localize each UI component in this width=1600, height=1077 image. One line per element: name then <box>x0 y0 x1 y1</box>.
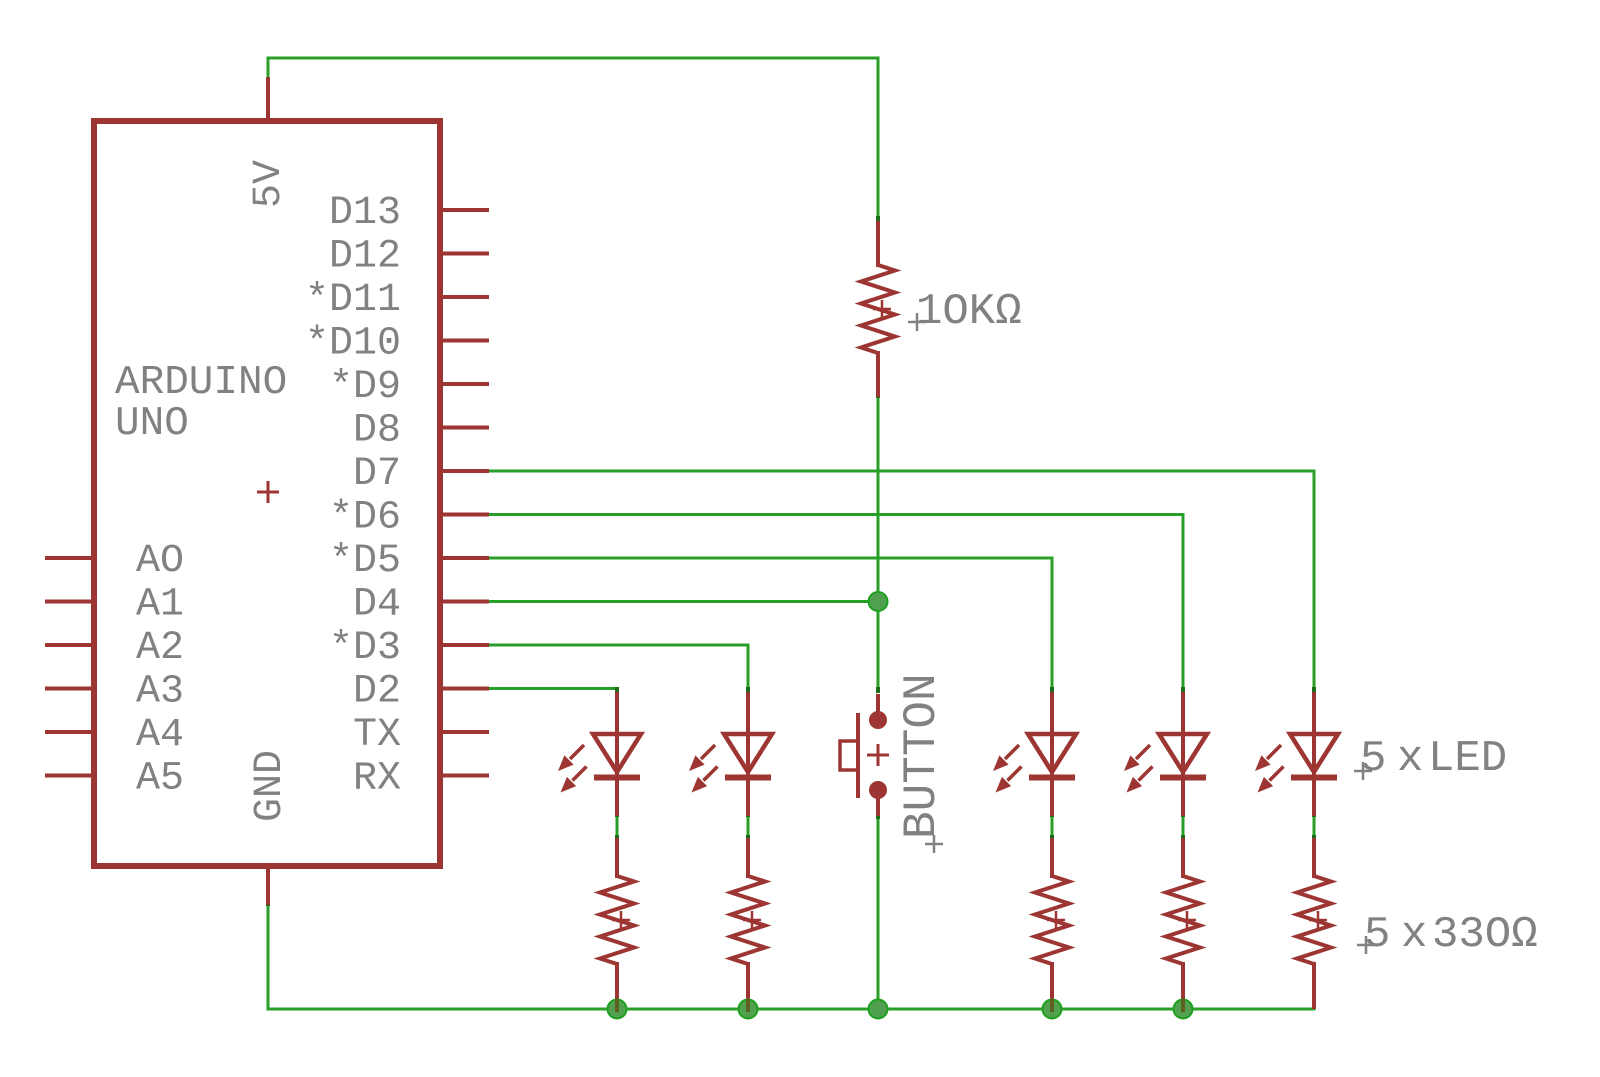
svg-text:5: 5 <box>1364 910 1390 960</box>
svg-text:A3: A3 <box>136 670 184 715</box>
svg-text:33OΩ: 33OΩ <box>1432 910 1538 960</box>
svg-text:x: x <box>1397 734 1423 784</box>
svg-text:D12: D12 <box>329 235 401 280</box>
svg-text:*D5: *D5 <box>329 539 401 584</box>
svg-text:D13: D13 <box>329 191 401 236</box>
svg-text:D4: D4 <box>353 583 401 628</box>
svg-text:*D6: *D6 <box>329 496 401 541</box>
svg-text:*D9: *D9 <box>329 365 401 410</box>
svg-text:D7: D7 <box>353 452 401 497</box>
svg-text:UNO: UNO <box>115 401 189 447</box>
svg-text:1OKΩ: 1OKΩ <box>916 287 1022 337</box>
svg-text:A4: A4 <box>136 713 184 758</box>
svg-text:A2: A2 <box>136 626 184 671</box>
svg-text:*D11: *D11 <box>305 278 401 323</box>
svg-text:5V: 5V <box>247 160 292 208</box>
svg-text:A1: A1 <box>136 583 184 628</box>
svg-text:TX: TX <box>353 713 401 758</box>
svg-text:*D3: *D3 <box>329 626 401 671</box>
svg-text:RX: RX <box>353 757 401 802</box>
svg-text:x: x <box>1401 910 1427 960</box>
svg-text:*D10: *D10 <box>305 322 401 367</box>
svg-text:5: 5 <box>1360 734 1386 784</box>
svg-text:A5: A5 <box>136 757 184 802</box>
svg-text:AO: AO <box>136 539 184 584</box>
svg-text:LED: LED <box>1428 734 1507 784</box>
svg-text:BUTTON: BUTTON <box>896 673 948 839</box>
svg-text:D2: D2 <box>353 670 401 715</box>
svg-text:D8: D8 <box>353 409 401 454</box>
svg-text:GND: GND <box>248 750 293 822</box>
svg-text:ARDUINO: ARDUINO <box>115 360 287 406</box>
